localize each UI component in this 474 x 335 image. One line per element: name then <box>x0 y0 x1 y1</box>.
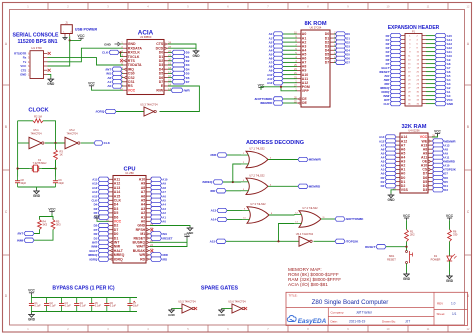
net flag D5 at ROM <box>336 52 351 56</box>
net flag A11 at CPU left <box>92 177 109 181</box>
svg-text:2K2: 2K2 <box>410 233 415 237</box>
wire RAM VSS to gnd <box>391 190 396 194</box>
svg-text:VCC: VCC <box>128 88 136 92</box>
net flag D6 at ACIA <box>172 75 190 79</box>
wire A2 to ROM <box>283 41 297 43</box>
svg-text:/IORQ: /IORQ <box>89 257 98 261</box>
no-connect ACIA /RTS <box>120 59 123 62</box>
svg-text:U6 27C64: U6 27C64 <box>310 26 322 30</box>
wire A10 to ROM <box>283 74 297 76</box>
power VCC at ACIA VCC pin <box>88 82 95 88</box>
svg-text:U5.3 74HCT04: U5.3 74HCT04 <box>140 102 158 106</box>
net flag MEMWR <box>298 157 322 161</box>
switch SW1 reset <box>387 251 412 264</box>
wire A15 branch up to U7.4 in2 <box>279 224 295 242</box>
resistor R1 2K2 <box>405 230 416 242</box>
net flag D2 at RAM left <box>381 184 396 188</box>
wire R1 to node <box>406 242 408 251</box>
svg-text:VCC: VCC <box>446 214 454 218</box>
net flag D0 at ACIA <box>172 50 190 54</box>
net flag D1 at P1 left <box>386 37 401 41</box>
capacitor C7 10uF <box>127 298 139 312</box>
net flag /IORQ input <box>96 109 116 113</box>
svg-text:GND: GND <box>447 102 453 106</box>
net flag A1 at ACIA CS1 <box>107 80 122 84</box>
svg-text:CLK: CLK <box>102 51 109 55</box>
net flag A13 at P1 right <box>435 41 452 45</box>
label serial console heading <box>12 32 59 45</box>
wire VPP branch <box>281 87 297 91</box>
wire VCC drop busrq <box>186 239 188 243</box>
net flag D4 at RAM right <box>433 184 449 188</box>
ground flag at ACIA GND pin <box>104 42 123 46</box>
wire D7 stub at ACIA <box>168 81 172 83</box>
net flag A12 at ROM <box>267 81 283 85</box>
net flag A3 at CPU right <box>151 207 167 211</box>
net flag D7 at ROM <box>336 60 351 64</box>
svg-text:2021-06-19: 2021-06-19 <box>349 320 366 324</box>
svg-text:0.1uF: 0.1uF <box>50 305 57 308</box>
svg-text:VSS: VSS <box>401 188 409 192</box>
wire A8 to ROM <box>283 65 297 67</box>
wire A9 to ROM <box>283 70 297 72</box>
wire /NMI to R5 <box>34 230 53 241</box>
wire R6 to LED <box>449 242 451 257</box>
ground at CPU <box>187 227 195 235</box>
svg-text:R/W: R/W <box>156 88 164 92</box>
svg-text:GND: GND <box>218 313 226 317</box>
wire /M1 to CS0 <box>122 72 123 74</box>
capacitor C4 0.1uF <box>74 298 86 312</box>
net flag D0 at CPU left <box>94 232 109 236</box>
wire A3 from P1 <box>426 83 435 85</box>
text memory map <box>288 267 341 287</box>
wire A11 from P1 <box>426 51 435 53</box>
wire U7.3 out to U7.4 in1 <box>269 214 294 217</box>
svg-text:D7: D7 <box>346 61 350 65</box>
net flag D6 at RAM right <box>433 175 449 179</box>
wire J1 pin2 to VCC rail <box>70 36 81 40</box>
svg-text:U7.3 74LS32: U7.3 74LS32 <box>250 202 266 206</box>
net flag D4 at P1 left <box>386 49 401 53</box>
wire crystal right to R3 <box>42 160 56 169</box>
title block Sheet <box>437 312 457 316</box>
svg-text:U5.2: U5.2 <box>69 128 75 132</box>
net flag D3 at ACIA <box>172 63 190 67</box>
no-connect U5.6 output <box>244 307 247 310</box>
resistor R2 <box>33 119 43 123</box>
no-connect CPU /BUSAK <box>150 249 153 252</box>
net flag CLK output <box>94 141 111 145</box>
label X1 crystal <box>33 158 48 165</box>
svg-text:ADDRESS DECODING: ADDRESS DECODING <box>246 140 304 146</box>
net flag /MREQ at P1 left <box>380 85 401 89</box>
net flag D7 at RAM right <box>433 171 449 175</box>
wire D2 stub at ACIA <box>168 60 172 62</box>
net flag A5 at ROM <box>269 52 283 56</box>
svg-text:D3: D3 <box>423 188 428 192</box>
ground led <box>446 275 454 283</box>
wire A1 to ROM <box>283 37 297 39</box>
net flag A4 at ROM <box>269 48 283 52</box>
net flag D1 at ROM <box>336 36 351 40</box>
label bypass caps heading <box>52 285 114 291</box>
wire D0 from ROM <box>334 33 336 35</box>
resistor R4 3K3 <box>38 220 48 230</box>
net flag D7 at P1 left <box>386 61 401 65</box>
net flag CLK at P1 left <box>383 101 401 105</box>
svg-text:VPP: VPP <box>302 89 310 93</box>
net flag D0 at RAM left <box>381 175 396 179</box>
label U5.1 <box>30 128 42 135</box>
net flag A15 <box>210 239 226 243</box>
svg-text:RESET: RESET <box>387 257 396 261</box>
net flag A11 at ROM <box>267 76 283 80</box>
net flag CLK at ACIA RXCLK <box>102 50 119 54</box>
net flag D2 at CPU left <box>94 223 109 227</box>
net flag A5 at P1 right <box>435 73 451 77</box>
net flag VCC at P1 right <box>435 97 453 101</box>
net flag MEMRD <box>298 184 321 188</box>
svg-text:EasyEDA: EasyEDA <box>298 318 327 325</box>
IC U3 ACIA 68B50 <box>120 29 171 94</box>
wire A5 to ROM <box>283 53 297 55</box>
svg-text:A12: A12 <box>267 81 273 85</box>
svg-text:A15: A15 <box>210 240 216 244</box>
net flag /INT at CPU left <box>92 240 109 244</box>
junction crystal right <box>54 167 56 169</box>
svg-text:USB POWER: USB POWER <box>75 27 98 31</box>
svg-text:U7.1 74LS32: U7.1 74LS32 <box>249 147 265 151</box>
net flag A4 at CPU right <box>151 202 167 206</box>
no-connect U5.5 output <box>194 307 197 310</box>
title block frame <box>286 292 468 325</box>
net flag D2 at ROM <box>336 40 351 44</box>
svg-text:0.1uF: 0.1uF <box>35 305 42 308</box>
wire A4 from P1 <box>426 79 435 81</box>
wire RESET to switch node <box>386 246 407 248</box>
inverter U5.6 spare <box>228 299 246 313</box>
svg-text:/RD: /RD <box>162 257 167 261</box>
wire D0 stub at ACIA <box>168 51 172 53</box>
capacitor C2 0.1uF <box>44 298 56 312</box>
IC U1 Z80 CPU <box>106 166 153 263</box>
wire D1 stub at ACIA <box>168 56 172 58</box>
capacitor C8 22pF <box>15 177 27 188</box>
net flag A5 at CPU right <box>151 198 167 202</box>
svg-text:GND: GND <box>168 313 176 317</box>
net flag D0 at P1 left <box>386 33 401 37</box>
net flag A11 at RAM right <box>433 155 450 159</box>
wire A7 to ROM <box>283 61 297 63</box>
net flag A14 at RAM left <box>379 135 396 139</box>
label expansion header heading <box>388 25 440 31</box>
wire /INT to IRQ <box>122 68 123 70</box>
junction reset node <box>405 246 407 248</box>
svg-text:U7.2 74LS32: U7.2 74LS32 <box>249 173 265 177</box>
svg-text:D3: D3 <box>444 188 448 192</box>
wire SW1 to gnd <box>406 264 408 273</box>
net flag A15 at CPU left <box>92 194 109 198</box>
wire U7.1 out to MEMWR <box>268 159 298 161</box>
wire A1 to CS1 <box>122 81 123 83</box>
net flag A6 at ACIA CS2 <box>107 75 122 79</box>
net flag A4 at P1 right <box>435 77 451 81</box>
wire A13 to U7.3 <box>227 210 242 212</box>
net flag D4 at CPU left <box>94 202 109 206</box>
net flag A9 at RAM right <box>433 151 449 155</box>
net flag A6 at RAM left <box>381 147 396 151</box>
net flag D5 at RAM right <box>433 179 449 183</box>
wire A11 to ROM <box>283 78 297 80</box>
capacitor C3 0.1uF <box>59 298 71 312</box>
net flag A5 at RAM left <box>381 151 396 155</box>
wire A3 to ROM <box>283 45 297 47</box>
svg-text:GND: GND <box>20 73 26 77</box>
svg-text:CLK: CLK <box>383 102 389 106</box>
net flag A0 at ACIA RS <box>107 84 122 88</box>
title text Z80 Single Board Computer <box>312 299 389 306</box>
net flag /M1 at CPU <box>151 232 168 236</box>
net flag /INT at ACIA IRQ <box>106 67 122 71</box>
wire A15 from P1 <box>426 35 435 37</box>
net flag /HALT at CPU left <box>89 249 109 253</box>
wire A0 from P1 <box>426 95 435 97</box>
net flag A15 at P1 right <box>435 33 452 37</box>
net flag /M1 at P1 left <box>385 73 401 77</box>
inverter U5.3 74HCT04 <box>140 102 158 116</box>
wire D4 from ROM <box>334 49 336 51</box>
net flag A10 at CPU right <box>151 177 168 181</box>
power VCC led <box>446 214 454 220</box>
net flag A14 into U7.3 <box>211 217 227 221</box>
svg-text:GND: GND <box>192 54 200 58</box>
net flag /RESET at P1 left <box>379 69 401 73</box>
inverter U5.2 74HCT04 <box>65 137 80 148</box>
net flag A10 at P1 right <box>435 53 452 57</box>
wire bypass bottom rail <box>32 311 138 313</box>
wire VCC to CPU <box>97 220 109 221</box>
ground at U5.6 <box>218 309 226 317</box>
svg-text:VCC: VCC <box>77 34 85 38</box>
net flag D5 at P1 left <box>386 53 401 57</box>
svg-text:VCC: VCC <box>48 207 56 211</box>
wire crystal left <box>18 168 29 170</box>
net flag D5 at CPU left <box>94 211 109 215</box>
net flag /TOP32K at RAM right <box>433 167 456 171</box>
net flag D3 at P1 left <box>386 45 401 49</box>
wire U7.2 out to MEMRD <box>268 185 298 187</box>
net flag A2 at RAM left <box>381 163 396 167</box>
svg-text:Date:: Date: <box>331 320 338 324</box>
net flag A6 at CPU right <box>151 194 167 198</box>
net flag A10 at RAM right <box>433 163 450 167</box>
net flag MEMWR at RAM right <box>433 139 456 143</box>
connector J1 USB power <box>61 22 72 37</box>
wire /WR to U7.1 <box>227 154 241 156</box>
svg-text:D7: D7 <box>186 80 190 84</box>
wire A14 to U7.3 <box>227 219 242 221</box>
net flag /WR at CPU <box>151 253 168 257</box>
title block Company row <box>331 310 374 314</box>
net flag D0 at ROM <box>336 32 351 36</box>
svg-text:D7: D7 <box>325 61 330 65</box>
net flag A7 at ROM <box>269 60 283 64</box>
net flag A2 at CPU right <box>151 211 167 215</box>
power VCC at RAM <box>434 129 441 135</box>
wire /MREQ to U7.2 and U7.1 <box>223 181 241 183</box>
or-gate U7.3 74LS32 <box>242 202 273 223</box>
net flag /HALT at P1 left <box>381 65 401 69</box>
svg-text:REV: REV <box>437 302 443 306</box>
svg-text:JJT: JJT <box>405 320 410 324</box>
wire CPU GND <box>150 226 190 227</box>
net flag A12 at P1 right <box>435 45 452 49</box>
net flag A8 at P1 right <box>435 61 451 65</box>
wire U5.4 out to TOP32K <box>314 240 336 242</box>
svg-text:A14: A14 <box>211 218 217 222</box>
net flag A0 at RAM left <box>381 171 396 175</box>
junction crystal left <box>17 167 19 169</box>
svg-text:Sheet:: Sheet: <box>437 312 446 316</box>
power VCC at ROM PGM <box>258 83 265 89</box>
wire A0 to RS <box>122 85 123 87</box>
svg-text:U5.6 74HCT04: U5.6 74HCT04 <box>228 299 246 303</box>
svg-text:/INT: /INT <box>18 232 24 236</box>
wire clock left node <box>17 121 19 169</box>
svg-text:/NMI: /NMI <box>17 238 23 242</box>
wire VCC to pullups <box>40 214 53 220</box>
wire FTDI Tx to ACIA RXDATA <box>48 48 124 62</box>
net flag A3 at RAM left <box>381 159 396 163</box>
net flag GND at P1 right <box>435 101 453 105</box>
label clock heading <box>28 108 49 114</box>
svg-text:SPARE GATES: SPARE GATES <box>201 285 239 291</box>
svg-text:VCC: VCC <box>434 129 441 133</box>
net flag A8 at CPU right <box>151 186 167 190</box>
net flag A6 at ROM <box>269 56 283 60</box>
svg-text:Jeff Tranter: Jeff Tranter <box>356 310 373 314</box>
inverter U5.4 74HCT04 <box>296 232 314 246</box>
svg-text:/BOTTOM8K: /BOTTOM8K <box>346 217 364 221</box>
svg-text:RESET: RESET <box>365 245 375 249</box>
wire A4 to ROM <box>283 49 297 51</box>
svg-text:/WR: /WR <box>184 88 191 92</box>
wire A1 from P1 <box>426 91 435 93</box>
capacitor C6 0.1uF <box>104 298 116 312</box>
wire D3 from ROM <box>334 45 336 47</box>
power VCC at J1 <box>77 34 85 40</box>
label USB POWER <box>75 27 98 31</box>
svg-text:B: B <box>467 125 469 129</box>
wire ACIA E to inverter U5.3 <box>160 86 200 112</box>
connector P1 expansion header <box>401 30 426 106</box>
wire MEMRD to OE <box>283 102 297 104</box>
svg-text:U7.4 74LS32: U7.4 74LS32 <box>302 206 318 210</box>
svg-text:CLOCK: CLOCK <box>28 108 49 114</box>
svg-text:330: 330 <box>453 233 458 237</box>
wire A12 to ROM <box>283 82 297 84</box>
svg-text:MEMRD: MEMRD <box>309 185 321 189</box>
no-connect CPU /RFSH <box>150 228 153 231</box>
net flag D1 at CPU left <box>94 236 109 240</box>
svg-text:115200 BPS 8N1: 115200 BPS 8N1 <box>17 39 57 45</box>
wire A2 from P1 <box>426 87 435 89</box>
net flag /NMI pullup <box>17 238 34 242</box>
net flag D2 at ACIA <box>172 59 190 63</box>
net flag A3 at ROM <box>269 44 283 48</box>
svg-text:OE: OE <box>302 101 308 105</box>
svg-text:/RESET: /RESET <box>162 236 172 240</box>
power VCC above R4 R5 <box>48 207 56 213</box>
wire A7 from P1 <box>426 67 435 69</box>
IC U4 62256 32K RAM <box>393 124 435 193</box>
svg-text:ACIA (I/O) $80-$81: ACIA (I/O) $80-$81 <box>288 282 328 287</box>
junction MREQ node <box>232 181 234 183</box>
no-connect FTDI CTS <box>48 69 51 72</box>
wire CLK to RXCLK and TXCLK <box>119 51 123 53</box>
inverter U5.1 74HCT04 <box>29 137 44 148</box>
svg-text:IORQ: IORQ <box>114 257 123 261</box>
net flag A4 at RAM left <box>381 155 396 159</box>
wire bypass gnd stub <box>31 312 33 314</box>
ground reset <box>403 273 411 281</box>
net flag D7 at ACIA <box>172 80 190 84</box>
svg-text:GND: GND <box>104 42 112 46</box>
inverter U5.5 spare <box>178 299 196 313</box>
svg-text:A0: A0 <box>162 220 166 224</box>
capacitor C5 0.1uF <box>89 298 101 312</box>
wire U7.4 out to BOTTOM8K <box>321 218 335 220</box>
svg-text:GND: GND <box>47 82 55 86</box>
svg-text:GND: GND <box>446 279 454 283</box>
net flag /BOTTOM8K at ROM CE <box>255 97 283 101</box>
label R2 1M <box>34 114 42 118</box>
wire U5.1 out to U5.2 in <box>45 142 65 144</box>
wire gnd to U5.5 input <box>172 308 183 310</box>
wire clock gnd stub <box>36 187 38 190</box>
resistor R6 330 <box>448 230 458 242</box>
svg-text:74HCT04: 74HCT04 <box>30 132 42 136</box>
net flag A1 at P1 right <box>435 89 451 93</box>
net flag A1 at ROM <box>269 36 283 40</box>
net flag /TOP32K out <box>335 239 359 243</box>
svg-text:CLK: CLK <box>104 141 111 145</box>
wire clock feedback top right <box>43 121 56 143</box>
wire RW stub <box>168 89 171 91</box>
net flag D6 at ROM <box>336 56 351 60</box>
svg-text:VCC: VCC <box>28 289 35 293</box>
wire FTDI GND <box>48 74 51 77</box>
net flag D6 at CPU left <box>94 215 109 219</box>
wire D3 stub at ACIA <box>168 64 172 66</box>
wire D4 stub at ACIA <box>168 68 172 70</box>
net flag A2 at P1 right <box>435 85 451 89</box>
wire /IORQ to U5.3 input <box>116 111 144 113</box>
wire GND from P1 <box>426 103 435 105</box>
net flag /BOTTOM8K out <box>335 217 364 221</box>
net flag A14 at CPU left <box>92 190 109 194</box>
wire VCC down to FTDI VCC pin <box>48 40 70 66</box>
net flag /RESET at CPU <box>151 236 173 240</box>
ground at RAM <box>387 194 395 202</box>
capacitor C9 22pF <box>53 177 65 188</box>
wire A15 to inverter U5.4 <box>226 240 299 242</box>
IC U6 27C64 8K ROM <box>294 21 337 107</box>
svg-text:Company:: Company: <box>331 310 345 314</box>
label spare gates heading <box>201 285 239 291</box>
net flag A7 at CPU right <box>151 190 167 194</box>
